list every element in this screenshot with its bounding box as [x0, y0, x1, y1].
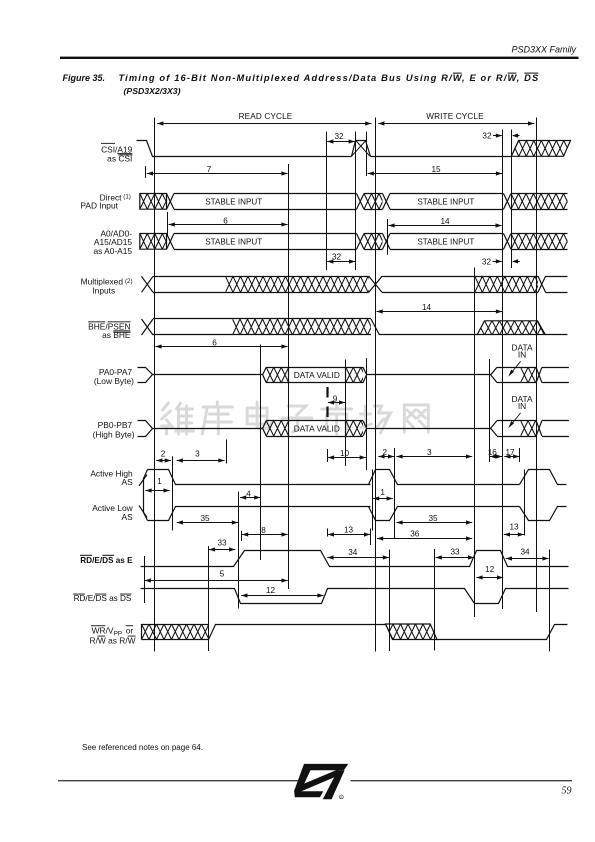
dimension 1 write: [373, 470, 393, 531]
reference line x144: [144, 556, 146, 603]
hatched region PAD input middle: [349, 194, 409, 210]
label A0/AD0-A15/AD15 as A0-A15: [93, 229, 132, 256]
dimension 17: [504, 448, 519, 458]
bus transition address bus x383: [383, 234, 391, 250]
bus transition address bus x357: [357, 234, 365, 250]
svg-text:35: 35: [428, 514, 438, 523]
svg-text:32: 32: [334, 132, 344, 141]
dimension 34 write: [506, 548, 549, 561]
watermark chinese text: [162, 402, 429, 434]
dimension 34 read: [327, 548, 389, 560]
svg-text:8: 8: [261, 526, 266, 535]
reference line x390: [389, 550, 391, 652]
svg-text:(2): (2): [125, 278, 133, 285]
hatched region address bus middle: [349, 234, 409, 250]
reference line x168 dim6: [167, 212, 169, 237]
label CSI/A19 as CSI: [101, 143, 133, 163]
dimension 6 rows2-3: [169, 216, 288, 226]
reference line x395: [394, 448, 396, 539]
text data valid PA: [294, 370, 340, 380]
dimension 13 write: [504, 523, 524, 537]
bus data valid PB: [263, 421, 367, 437]
dimension 4: [240, 489, 260, 499]
hatched region PAD input left: [125, 194, 185, 210]
svg-text:READ CYCLE: READ CYCLE: [239, 112, 293, 121]
svg-text:(High Byte): (High Byte): [93, 429, 135, 439]
read cycle start reference line: [154, 118, 156, 652]
bus data in PB: [491, 421, 536, 437]
dimension 36: [377, 530, 472, 541]
bus transition address bus x167: [167, 234, 175, 250]
svg-text:Figure 35.: Figure 35.: [63, 73, 106, 83]
svg-text:33: 33: [217, 538, 227, 547]
hatched region PAD input right: [496, 194, 586, 210]
header family name: [511, 44, 576, 54]
reference line x366: [366, 132, 368, 471]
dimension 33 write: [436, 548, 475, 560]
svg-text:1: 1: [380, 488, 385, 497]
text DATA IN row6: [508, 342, 533, 376]
svg-text:as BHE: as BHE: [102, 330, 131, 340]
signal multiplexed inputs waveform: [142, 276, 226, 292]
svg-text:6: 6: [212, 338, 217, 347]
svg-text:AS: AS: [122, 477, 134, 487]
dimension 12 write: [476, 565, 503, 580]
reference line x226: [226, 440, 228, 464]
bus stable input PAD input write: [390, 194, 504, 210]
svg-text:as A0-A15: as A0-A15: [93, 246, 132, 256]
svg-text:13: 13: [344, 525, 354, 534]
bus transition PAD input x383: [383, 194, 391, 210]
bus transition address bus x504: [504, 234, 512, 250]
dimension 35 read: [177, 514, 238, 525]
signal BHE write low: [371, 319, 477, 335]
svg-text:32: 32: [482, 131, 492, 140]
signal AS write pulse 1: [369, 470, 520, 521]
svg-text:4: 4: [246, 489, 251, 498]
svg-text:7: 7: [207, 165, 212, 174]
dimension 35 write: [396, 514, 472, 525]
svg-text:35: 35: [200, 514, 210, 523]
dimension 9: [328, 394, 345, 404]
footer note: [82, 743, 203, 752]
glitch pulse on CSI: [352, 141, 371, 157]
footer rule: [58, 780, 572, 781]
dimension 12 read: [241, 586, 323, 597]
hatched region CSI write side: [496, 141, 586, 157]
signal DS waveform: [141, 589, 569, 604]
svg-text:DATA VALID: DATA VALID: [294, 370, 340, 380]
svg-text:or: or: [126, 625, 134, 635]
svg-text:See referenced notes on page 6: See referenced notes on page 64.: [82, 743, 203, 752]
svg-text:5: 5: [220, 569, 225, 578]
read cycle header: [157, 112, 371, 126]
write cycle end reference line: [536, 118, 538, 613]
svg-text:32: 32: [482, 257, 492, 266]
figure title line 2: [124, 86, 181, 96]
signal PA mid write: [367, 374, 491, 376]
bus transition PAD input x504: [504, 194, 512, 210]
svg-text:STABLE INPUT: STABLE INPUT: [205, 197, 262, 206]
svg-text:15: 15: [431, 165, 441, 174]
hatched region PB data valid right: [331, 421, 391, 436]
reference line x288: [288, 164, 290, 589]
reference line x208: [208, 546, 210, 651]
dimension 32 row3 read: [327, 252, 355, 263]
reference line x524: [524, 470, 526, 536]
text data valid PB: [294, 423, 340, 433]
hatched region PA data valid right: [331, 367, 391, 382]
svg-text:PSD3XX Family: PSD3XX Family: [511, 44, 576, 54]
bus data in PA: [491, 367, 536, 382]
dimension 32 row3 write: [482, 257, 520, 266]
svg-text:34: 34: [520, 548, 530, 557]
reference line x435: [434, 549, 436, 651]
dimension 14 row4: [377, 303, 503, 314]
hatched region PB data in: [506, 421, 566, 436]
signal BHE waveform: [142, 319, 233, 336]
svg-text:RD/E/DS as DS: RD/E/DS as DS: [74, 594, 132, 603]
svg-text:IN: IN: [518, 401, 526, 411]
svg-text:Inputs: Inputs: [92, 285, 115, 295]
reference line x520: [519, 448, 521, 462]
svg-text:14: 14: [440, 217, 450, 226]
reference line x475: [474, 268, 476, 618]
signal PA start hooks: [138, 368, 263, 383]
label Active Low AS: [92, 503, 133, 522]
svg-text:STABLE INPUT: STABLE INPUT: [205, 237, 262, 246]
label PA0-PA7 Low Byte: [94, 367, 134, 386]
signal PB start hooks: [138, 421, 263, 437]
svg-text:Timing of 16-Bit Non-Multiplex: Timing of 16-Bit Non-Multiplexed Address…: [119, 73, 540, 83]
hatched region WR left: [127, 624, 232, 640]
reference line x549: [549, 550, 551, 652]
reference line x327 dashed: [326, 387, 328, 537]
svg-text:IN: IN: [518, 350, 526, 360]
svg-text:(Low Byte): (Low Byte): [94, 376, 134, 386]
svg-text:12: 12: [485, 565, 495, 574]
reference line x261: [260, 345, 262, 561]
reference line x502: [502, 130, 504, 610]
svg-text:3: 3: [427, 448, 432, 457]
hatched region PB data valid left: [251, 421, 311, 436]
label Active High AS: [90, 469, 133, 488]
read-write boundary reference line: [375, 118, 377, 652]
svg-text:RD/E/DS as E: RD/E/DS as E: [80, 556, 133, 565]
dimension 32 row1 write: [482, 131, 519, 140]
svg-text:14: 14: [422, 303, 432, 312]
page number 59: [562, 786, 572, 797]
hatched region multiplexed write: [460, 276, 565, 292]
write cycle header: [378, 112, 534, 126]
reference line x511: [511, 130, 513, 269]
label RD/E/DS as E: [80, 555, 133, 565]
reference line x326: [326, 132, 328, 271]
hatched region address bus left: [125, 234, 185, 250]
bus stable input address bus read: [174, 234, 357, 250]
ST logo: [294, 764, 349, 800]
svg-text:AS: AS: [122, 512, 134, 522]
svg-text:59: 59: [562, 786, 572, 797]
header rule: [60, 57, 579, 59]
dimension 3 read: [177, 450, 225, 463]
bus transition PA x536: [536, 367, 569, 382]
hatched region PA data in: [506, 367, 566, 382]
dimension 5: [145, 569, 288, 582]
text DATA IN row7: [508, 394, 533, 428]
dimension 10: [328, 449, 366, 460]
signal CSI waveform: [137, 141, 512, 157]
signal AS write pulse 2: [520, 470, 567, 521]
svg-text:WR/V: WR/V: [92, 625, 114, 635]
dimension 8: [242, 526, 288, 541]
reference line x173: [172, 456, 174, 530]
label RD/E/DS as DS: [73, 594, 132, 604]
svg-text:3: 3: [195, 450, 200, 459]
svg-text:36: 36: [410, 530, 420, 539]
dimension 14 rows2-3: [388, 217, 501, 228]
svg-text:33: 33: [450, 548, 460, 557]
hatched region WR middle parallelogram: [371, 624, 461, 640]
dimension 3 write: [396, 448, 472, 458]
dimension 16: [488, 448, 502, 458]
hatched region multiplexed read: [211, 276, 391, 292]
dimension 2 write: [378, 448, 394, 458]
signal PB mid write: [367, 428, 491, 430]
bus transition multiplexed x369: [369, 276, 475, 292]
figure title line 1: [63, 73, 540, 83]
label BHE/PSEN as BHE: [88, 321, 131, 340]
svg-text:10: 10: [340, 449, 350, 458]
svg-text:(1): (1): [123, 194, 131, 201]
dimension 15: [368, 165, 503, 176]
hatched pulse BHE write: [462, 321, 568, 335]
svg-text:DATA VALID: DATA VALID: [294, 423, 340, 433]
signal AS read pulse pair: [139, 470, 371, 521]
bus transition PAD input x167: [167, 194, 175, 210]
svg-text:STABLE INPUT: STABLE INPUT: [417, 197, 474, 206]
svg-text:13: 13: [509, 523, 519, 532]
signal WR waveform middle: [209, 625, 386, 640]
dimension 2 read: [156, 450, 171, 463]
dimension 32 row1 read: [327, 132, 355, 144]
dimension 1 read: [145, 477, 169, 493]
dimension 6 row5: [155, 338, 287, 348]
svg-text:34: 34: [348, 548, 358, 557]
label WR/Vpp or RW as RW: [90, 625, 136, 645]
hatched region BHE read: [218, 319, 398, 336]
reference line x346: [345, 360, 347, 467]
bus transition multiplexed x538: [538, 276, 568, 292]
signal WR waveform right: [437, 625, 568, 640]
label PB0-PB7 High Byte: [93, 420, 135, 439]
dimension 7: [146, 165, 288, 178]
bus transition PB x536: [536, 421, 569, 437]
svg-text:6: 6: [223, 216, 228, 225]
label Multiplexed Inputs: [81, 277, 133, 296]
svg-text:WRITE CYCLE: WRITE CYCLE: [426, 112, 484, 121]
svg-text:PAD Input: PAD Input: [80, 200, 118, 210]
bus stable input address bus write: [390, 234, 504, 250]
svg-text:STABLE INPUT: STABLE INPUT: [417, 237, 474, 246]
reference line x388 dim14: [387, 219, 389, 255]
reference line x489: [489, 359, 491, 462]
dimension 13 read: [328, 525, 371, 545]
svg-text:12: 12: [266, 586, 276, 595]
svg-text:R/W as R/W: R/W as R/W: [90, 636, 136, 646]
hatched region address bus right: [496, 234, 586, 250]
bus transition PAD input x357: [357, 194, 365, 210]
hatched region PA data valid left: [251, 367, 311, 382]
svg-text:(PSD3X2/3X3): (PSD3X2/3X3): [124, 86, 181, 96]
dimension 33 read: [209, 538, 235, 551]
label Direct PAD Input: [80, 192, 130, 210]
bus stable input PAD input read: [174, 194, 357, 210]
reference line x238: [238, 492, 240, 609]
signal E waveform: [141, 551, 569, 567]
svg-text:1: 1: [157, 477, 162, 486]
svg-text:2: 2: [161, 450, 166, 459]
reference line x356: [355, 132, 357, 271]
bus data valid PA: [263, 367, 367, 382]
